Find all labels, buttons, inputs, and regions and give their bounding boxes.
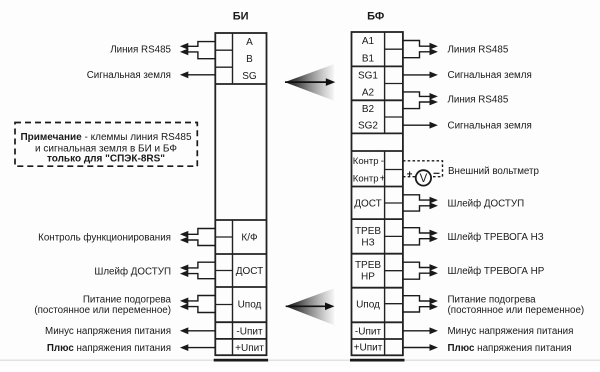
svg-text:ТРЕВ: ТРЕВ	[355, 260, 381, 271]
terminal -Uпит БФ label	[355, 326, 382, 337]
terminal +Uпит БФ label	[354, 343, 383, 354]
svg-text:-Uпит: -Uпит	[236, 326, 263, 337]
arrowhead +Uпит (БИ)	[180, 344, 188, 351]
svg-text:НР: НР	[361, 272, 375, 283]
terminal B2 label	[362, 104, 375, 115]
arrowhead Uпод bottom (БИ)	[180, 303, 188, 310]
wire ДОСТ top (БИ)	[187, 262, 215, 268]
wire +Uпит (БФ)	[403, 347, 431, 349]
svg-text:B1: B1	[362, 53, 375, 64]
arrowhead +Uпит (БФ)	[430, 344, 438, 351]
note text line 3	[47, 153, 165, 164]
terminal B label	[246, 54, 253, 65]
svg-text:Шлейф ДОСТУП: Шлейф ДОСТУП	[448, 198, 525, 209]
block БИ inner vertical divider	[232, 33, 234, 355]
label (постоянное или переменное) (БФ)	[448, 305, 585, 316]
terminal A label	[246, 37, 253, 48]
header label БИ	[233, 10, 249, 22]
svg-text:Внешний вольтметр: Внешний вольтметр	[448, 166, 540, 177]
svg-text:БФ: БФ	[367, 10, 384, 22]
arrowhead ДОСТ top (БФ)	[430, 197, 438, 204]
block БИ base bar	[214, 359, 268, 362]
block БФ full-width separators	[352, 66, 403, 339]
terminal Контр+ label	[353, 173, 386, 184]
svg-text:A: A	[246, 37, 253, 48]
arrowhead К/Ф top	[180, 231, 188, 238]
wire Uпод bottom (БИ)	[187, 307, 215, 313]
arrowhead wire SG	[180, 71, 188, 78]
arrowhead ТРЕВ НЗ top	[430, 230, 438, 237]
label Шлейф ТРЕВОГА НЗ	[448, 232, 544, 243]
terminal ТРЕВ НР label	[355, 260, 381, 283]
wire -Uпит (БФ)	[403, 330, 431, 332]
arrowhead wire B	[180, 49, 188, 56]
terminal Контр- label	[353, 156, 384, 167]
terminal ДОСТ БФ label	[354, 198, 382, 209]
terminal К/Ф label	[241, 233, 258, 244]
svg-text:SG2: SG2	[358, 121, 378, 132]
label Контроль функционирования	[38, 233, 171, 244]
svg-text:Uпод: Uпод	[356, 300, 380, 311]
arrowhead ДОСТ bottom (БФ)	[430, 202, 438, 209]
terminal A1 label	[362, 36, 375, 47]
svg-text:Линия RS485: Линия RS485	[448, 95, 509, 106]
arrowhead ТРЕВ НР top	[430, 264, 438, 271]
label Сигнальная земля (БФ-1)	[448, 70, 532, 81]
arrowhead ДОСТ bottom (БИ)	[180, 270, 188, 277]
svg-text:Примечание - клеммы линия RS48: Примечание - клеммы линия RS485	[20, 132, 192, 143]
svg-text:Минус напряжения питания: Минус напряжения питания	[45, 326, 171, 337]
wire RS485 line B1 (БФ)	[403, 52, 431, 58]
svg-text:SG1: SG1	[358, 71, 378, 82]
svg-text:Плюс напряжения питания: Плюс напряжения питания	[448, 343, 572, 354]
svg-text:К/Ф: К/Ф	[241, 233, 258, 244]
wire ДОСТ bottom (БИ)	[187, 274, 215, 279]
label Сигнальная земля (БИ)	[87, 70, 171, 81]
svg-text:A1: A1	[362, 36, 375, 47]
svg-text:Контр: Контр	[353, 156, 379, 167]
wire RS485 line A1 (БФ)	[403, 41, 431, 47]
label Питание подогрева (БИ)	[83, 294, 172, 305]
wire RS485 line A (БИ)	[187, 42, 215, 47]
wire Контр+ dashed	[403, 176, 416, 178]
terminal SG label	[242, 71, 257, 82]
svg-text:-: -	[381, 156, 384, 167]
terminal ТРЕВ НЗ label	[355, 226, 381, 249]
wire ТРЕВ НЗ bottom	[403, 239, 431, 245]
terminal Uпод БФ label	[356, 300, 380, 311]
label Минус напряжения питания (БИ)	[45, 326, 171, 337]
block БИ full-width separators	[215, 84, 266, 339]
label Шлейф ТРЕВОГА НР	[448, 266, 545, 277]
svg-text:V: V	[420, 173, 428, 185]
arrowhead ТРЕВ НЗ bottom	[430, 235, 438, 242]
terminal SG1 label	[358, 71, 378, 82]
arrowhead wire A	[180, 43, 188, 50]
svg-text:Сигнальная земля: Сигнальная земля	[87, 70, 171, 81]
svg-text:A2: A2	[362, 87, 375, 98]
wire Uпод bottom (БФ)	[403, 307, 431, 312]
wire ДОСТ bottom (БФ)	[403, 206, 431, 211]
terminal B1 label	[362, 53, 375, 64]
terminal ДОСТ БИ label	[236, 266, 264, 277]
svg-text:(постоянное или переменное): (постоянное или переменное)	[34, 305, 171, 316]
wire ТРЕВ НР top	[403, 262, 431, 267]
block БИ contact-column dividers	[215, 50, 232, 304]
wire RS485 line A2 (БФ)	[403, 92, 431, 97]
wire SG (БИ)	[187, 74, 215, 76]
wire ДОСТ top (БФ)	[403, 195, 431, 200]
arrowhead SG1	[430, 72, 438, 79]
svg-text:Шлейф ДОСТУП: Шлейф ДОСТУП	[94, 267, 171, 278]
svg-text:Шлейф ТРЕВОГА НР: Шлейф ТРЕВОГА НР	[448, 266, 545, 277]
terminal SG2 label	[358, 121, 378, 132]
svg-text:Uпод: Uпод	[238, 300, 262, 311]
note text line 1	[20, 132, 192, 143]
arrowhead -Uпит (БФ)	[430, 327, 438, 334]
svg-text:+Uпит: +Uпит	[235, 343, 264, 354]
svg-text:Сигнальная земля: Сигнальная земля	[448, 121, 532, 132]
svg-text:B2: B2	[362, 104, 375, 115]
svg-text:Минус напряжения питания: Минус напряжения питания	[448, 326, 574, 337]
arrowhead ТРЕВ НР bottom	[430, 270, 438, 277]
label Шлейф ДОСТУП (БФ)	[448, 198, 525, 209]
label Линия RS485 (БФ-1)	[448, 44, 509, 55]
terminal A2 label	[362, 87, 375, 98]
svg-text:Линия RS485: Линия RS485	[448, 44, 509, 55]
svg-text:+Uпит: +Uпит	[354, 343, 383, 354]
label Линия RS485 (БИ)	[110, 44, 171, 55]
arrowhead B2	[430, 99, 438, 106]
voltmeter V circle	[416, 170, 431, 185]
wire К/Ф top (БИ)	[187, 229, 215, 235]
arrowhead К/Ф bottom	[180, 237, 188, 244]
svg-text:Линия RS485: Линия RS485	[110, 44, 171, 55]
svg-text:БИ: БИ	[233, 10, 249, 22]
block БИ outline	[215, 33, 266, 355]
label Плюс напряжения питания (БИ)	[47, 343, 171, 354]
terminal +Uпит БИ label	[235, 343, 264, 354]
svg-text:только для "СПЭК-8RS": только для "СПЭК-8RS"	[47, 153, 165, 164]
wire ТРЕВ НЗ top	[403, 228, 431, 233]
svg-text:SG: SG	[242, 71, 257, 82]
voltmeter minus sign	[434, 172, 440, 174]
arrowhead A2	[430, 93, 438, 100]
svg-text:Питание подогрева: Питание подогрева	[448, 294, 537, 305]
svg-text:Плюс напряжения питания: Плюс напряжения питания	[47, 343, 171, 354]
wire +Uпит (БИ)	[187, 347, 215, 349]
arrowhead SG2	[430, 122, 438, 129]
svg-text:НЗ: НЗ	[361, 238, 374, 249]
svg-text:ДОСТ: ДОСТ	[354, 198, 382, 209]
block БФ contact-column dividers	[385, 49, 403, 304]
label Линия RS485 (БФ-2)	[448, 95, 509, 106]
block БФ inner vertical divider	[384, 32, 386, 355]
svg-text:Контроль функционирования: Контроль функционирования	[38, 233, 171, 244]
wire SG2	[403, 124, 431, 126]
arrowhead -Uпит (БИ)	[180, 327, 188, 334]
arrowhead ДОСТ top (БИ)	[180, 265, 188, 272]
svg-text:-Uпит: -Uпит	[355, 326, 382, 337]
svg-text:Шлейф ТРЕВОГА НЗ: Шлейф ТРЕВОГА НЗ	[448, 232, 544, 243]
wire Контр- dashed	[403, 161, 443, 177]
label Шлейф ДОСТУП (БИ)	[94, 267, 171, 278]
svg-text:(постоянное или переменное): (постоянное или переменное)	[448, 305, 585, 316]
wire Uпод top (БИ)	[187, 296, 215, 301]
block БФ outline	[352, 32, 403, 355]
svg-text:ТРЕВ: ТРЕВ	[355, 226, 381, 237]
svg-text:Контр: Контр	[353, 173, 379, 184]
svg-text:Питание подогрева: Питание подогрева	[83, 294, 172, 305]
big link arrow top (БИ-БФ)	[285, 64, 336, 101]
note box dashed	[15, 123, 197, 167]
label (постоянное или переменное) (БИ)	[34, 305, 171, 316]
block БФ base bar	[350, 359, 405, 362]
svg-text:Сигнальная земля: Сигнальная земля	[448, 70, 532, 81]
arrowhead Uпод bottom (БФ)	[430, 303, 438, 310]
svg-text:ДОСТ: ДОСТ	[236, 266, 264, 277]
label Сигнальная земля (БФ-2)	[448, 121, 532, 132]
wire К/Ф bottom (БИ)	[187, 240, 215, 246]
label Минус напряжения питания (БФ)	[448, 326, 574, 337]
arrowhead B1	[430, 48, 438, 55]
wire SG1	[403, 74, 431, 76]
voltmeter plus sign	[407, 171, 412, 176]
arrowhead Uпод top (БФ)	[430, 298, 438, 305]
svg-text:+: +	[380, 173, 386, 184]
bottom faint rule	[0, 359, 600, 361]
terminal Uпод БИ label	[238, 300, 262, 311]
big link arrow bottom (БИ-БФ)	[286, 288, 335, 325]
terminal -Uпит БИ label	[236, 326, 263, 337]
label Плюс напряжения питания (БФ)	[448, 343, 572, 354]
svg-text:B: B	[246, 54, 253, 65]
wire RS485 line B2 (БФ)	[403, 102, 431, 109]
label Внешний вольтметр	[448, 166, 540, 177]
header label БФ	[367, 10, 384, 22]
wire Uпод top (БФ)	[403, 296, 431, 301]
wire -Uпит (БИ)	[187, 330, 215, 332]
label Питание подогрева (БФ)	[448, 294, 537, 305]
note text line 2	[35, 144, 177, 155]
wire ТРЕВ НР bottom	[403, 273, 431, 279]
arrowhead Uпод top (БИ)	[180, 298, 188, 305]
wire RS485 line B (БИ)	[187, 52, 215, 59]
arrowhead A1	[430, 43, 438, 50]
